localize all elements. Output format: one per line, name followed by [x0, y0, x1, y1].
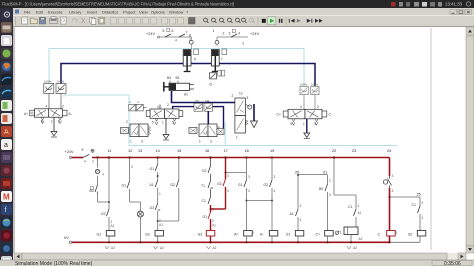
contact T1 (rung 16) [208, 181, 213, 188]
svg-text:B4: B4 [167, 76, 171, 80]
svg-text:3: 3 [227, 174, 229, 178]
svg-text:+24V: +24V [250, 32, 259, 36]
status bar [0, 260, 474, 266]
svg-text:1: 1 [221, 57, 223, 61]
tie rung14-15 [158, 220, 179, 222]
svg-text:0:35:06: 0:35:06 [444, 261, 461, 266]
rung 24 (red) [389, 158, 391, 177]
svg-text:7: 7 [186, 31, 188, 35]
tie rung10-11 [98, 201, 110, 203]
coil G1 [106, 231, 115, 237]
svg-text:2: 2 [329, 179, 331, 183]
svg-text:A2: A2 [353, 246, 357, 250]
contact G3 NC (rung 14) [155, 203, 160, 210]
rung 11 [108, 158, 110, 210]
tie rung22-23 [334, 194, 356, 196]
svg-text:G2: G2 [264, 183, 269, 187]
svg-text:B1: B1 [176, 76, 180, 80]
contact G2 (rung 11) [107, 209, 110, 216]
sensor bulb cyl2 [215, 40, 219, 44]
red jog to rung 17 [211, 208, 226, 210]
contact B0 [95, 185, 98, 193]
contact G1 (rung 12) [127, 181, 130, 188]
svg-text:A1: A1 [150, 183, 154, 187]
svg-text:T1: T1 [338, 231, 342, 235]
svg-text:22: 22 [332, 149, 336, 153]
svg-text:9: 9 [82, 148, 84, 152]
contact G1 (rung 14) [155, 164, 158, 171]
branch 25 [390, 196, 421, 198]
svg-text:1: 1 [130, 140, 132, 144]
contact B0 (rung 21) [325, 184, 328, 191]
contact A1 (rung 14) [155, 180, 158, 187]
svg-text:2: 2 [396, 231, 398, 235]
svg-text:A1: A1 [290, 212, 294, 216]
svg-text:A2: A2 [160, 246, 164, 250]
svg-text:3: 3 [392, 174, 394, 178]
svg-text:3: 3 [141, 140, 143, 144]
svg-text:100%: 100% [311, 83, 319, 87]
svg-text:S1: S1 [286, 233, 290, 237]
contact G1 (rung 18) [244, 180, 247, 187]
svg-text:Library: Library [69, 9, 81, 14]
wire top rail (red, energized) [72, 157, 83, 159]
svg-text:4: 4 [300, 105, 302, 109]
svg-text:2: 2 [223, 32, 225, 36]
svg-text:C+: C+ [277, 113, 281, 117]
supply triangle under valve D [306, 119, 308, 133]
contact G2 (rung 15) [176, 180, 179, 187]
sensor bulb 8 [189, 40, 193, 44]
svg-text:Insert: Insert [87, 9, 98, 14]
svg-text:1: 1 [236, 136, 238, 140]
wire sensor row 2 [217, 36, 248, 38]
page border [430, 28, 432, 250]
rung 15 [178, 158, 180, 181]
svg-text:D -: D - [210, 83, 216, 87]
svg-text:2: 2 [252, 231, 254, 235]
wire cyan valve S drop [224, 122, 226, 146]
svg-text:A1: A1 [111, 224, 115, 228]
coil G3 [206, 231, 215, 237]
svg-text:2: 2 [317, 105, 319, 109]
svg-text:2: 2 [212, 219, 214, 223]
svg-text:3: 3 [242, 42, 244, 46]
svg-text:Window: Window [169, 9, 183, 14]
svg-text:T1: T1 [201, 184, 205, 188]
svg-text:3: 3 [131, 165, 133, 169]
svg-text:4: 4 [238, 32, 240, 36]
wire cyan long bottom [129, 145, 397, 147]
svg-text:A2: A2 [111, 246, 115, 250]
svg-text:3: 3 [274, 175, 276, 179]
rung 16 (upper part not energized) [210, 158, 212, 167]
svg-text:G1: G1 [203, 215, 208, 219]
rung 20 [297, 175, 299, 209]
rung 22 [333, 158, 335, 196]
wire navy throttle output drop [218, 107, 224, 129]
counter symbol [335, 231, 339, 235]
svg-text:G1: G1 [97, 233, 102, 237]
junction [207, 101, 209, 103]
svg-text:3: 3 [172, 121, 174, 125]
svg-text:17: 17 [224, 149, 228, 153]
wire sensor row 1 [160, 37, 192, 40]
svg-text:0%: 0% [205, 99, 210, 103]
svg-text:Options: Options [151, 9, 165, 14]
svg-text:C-: C- [329, 113, 333, 117]
toolbar [13, 15, 474, 27]
wire bottom rail grey continuation to S2 [390, 241, 421, 243]
svg-text:4: 4 [175, 39, 177, 43]
coil C (red) [387, 231, 396, 237]
horizontal scrollbar [14, 253, 466, 260]
rung numbers [108, 149, 421, 197]
switch row2 [231, 34, 237, 37]
contact G1 (red, rung 16 lower) [208, 212, 211, 219]
svg-text:A1: A1 [159, 223, 163, 227]
svg-text:A2: A2 [213, 246, 217, 250]
lamp [137, 211, 143, 217]
svg-text:6: 6 [172, 29, 174, 33]
svg-text:100%: 100% [44, 80, 52, 84]
svg-text:G2: G2 [101, 212, 106, 216]
svg-text:20: 20 [295, 171, 299, 175]
tie rung12-13 [130, 201, 141, 203]
svg-text:A: A [4, 129, 9, 136]
sub-branch header 20/21 [298, 174, 328, 176]
svg-text:G1: G1 [150, 167, 155, 171]
svg-text:+24V: +24V [65, 150, 74, 154]
rung 13 with lamp [139, 202, 141, 211]
rung 21 [327, 175, 329, 184]
tray icons [391, 2, 396, 7]
svg-text:G2: G2 [171, 183, 176, 187]
wire navy main header [61, 64, 315, 87]
svg-text:4: 4 [227, 189, 229, 193]
svg-text:Project: Project [123, 9, 136, 14]
svg-text:11: 11 [108, 149, 112, 153]
coil A- [269, 231, 278, 237]
svg-text:S2: S2 [408, 233, 412, 237]
wire cyan main loop top [49, 49, 304, 87]
svg-text:G3: G3 [217, 182, 222, 186]
svg-text:G3: G3 [150, 206, 155, 210]
coil A= [244, 231, 253, 237]
svg-text:a: a [4, 142, 8, 149]
switch 9 in rail [83, 154, 90, 157]
svg-text:4: 4 [300, 218, 302, 222]
wire navy drop to valve B [207, 103, 209, 125]
svg-text:1: 1 [213, 29, 215, 33]
tie rung17-18 [226, 172, 247, 174]
svg-text:C1: C1 [412, 203, 416, 207]
coil C= [325, 231, 334, 237]
contact G3 (rung 17, red) [223, 179, 226, 186]
svg-text:G2: G2 [202, 169, 207, 173]
sensor box pair right of cylinder B [218, 70, 225, 76]
svg-text:f: f [5, 207, 7, 214]
svg-text:15: 15 [177, 149, 181, 153]
top panel [0, 0, 474, 8]
switch 5/6 [165, 34, 171, 37]
svg-text:2: 2 [167, 103, 169, 107]
menu bar [13, 8, 474, 15]
vertical scrollbar [466, 27, 474, 253]
svg-text:File: File [24, 9, 31, 14]
svg-text:3: 3 [422, 201, 424, 205]
rung 19 [271, 158, 273, 181]
svg-text:A1: A1 [212, 224, 216, 228]
svg-text:C: C [378, 233, 381, 237]
svg-text:0V: 0V [64, 235, 69, 240]
rung 14 [157, 158, 159, 165]
rung 17 (energized red) [225, 158, 227, 180]
rung 10 branch [96, 156, 98, 158]
svg-text:21: 21 [323, 171, 327, 175]
svg-text:12: 12 [239, 92, 243, 96]
svg-text:Simulation Mode (100% Real tim: Simulation Mode (100% Real time) [15, 261, 93, 266]
svg-text:5: 5 [152, 121, 154, 125]
svg-text:12: 12 [128, 149, 132, 153]
svg-text:A1: A1 [184, 92, 188, 96]
rung 23 branch with C1 contact [355, 195, 357, 209]
svg-text:18: 18 [245, 149, 249, 153]
svg-text:1: 1 [303, 122, 305, 126]
svg-text:3: 3 [210, 140, 212, 144]
exhaust marks [41, 117, 44, 123]
svg-text:3: 3 [300, 204, 302, 208]
svg-text:4: 4 [422, 216, 424, 220]
svg-text:4: 4 [84, 160, 86, 164]
rung 12 [129, 158, 131, 182]
wire cyan left branch [64, 95, 129, 97]
svg-text:4: 4 [392, 189, 394, 193]
supply triangle valve S [251, 121, 258, 128]
svg-text:B0: B0 [319, 187, 323, 191]
contact A1 (rung 20) [296, 209, 299, 216]
svg-text:4: 4 [157, 105, 159, 109]
reset marks under G1 [105, 246, 109, 249]
sensor box D- on cylinder B rod [210, 73, 217, 87]
source symbol above rail [91, 149, 94, 152]
svg-text:13:41:33: 13:41:33 [445, 2, 463, 7]
svg-text:G1: G1 [122, 184, 127, 188]
svg-text:3: 3 [229, 32, 231, 36]
svg-text:1: 1 [162, 121, 164, 125]
svg-text:A2: A2 [359, 237, 363, 241]
svg-text:View: View [139, 9, 148, 14]
svg-text:+24V: +24V [146, 32, 155, 36]
coil G2 [155, 231, 164, 237]
svg-text:4: 4 [274, 189, 276, 193]
contact C1 (rung 25) [418, 206, 421, 213]
wire bottom rail (red, energized) [72, 241, 390, 243]
tie rung18-19 [246, 200, 272, 202]
svg-text:G3: G3 [198, 233, 203, 237]
svg-text:M: M [3, 193, 10, 202]
svg-text:2: 2 [62, 105, 64, 109]
mdi window buttons [450, 10, 472, 15]
svg-text:16: 16 [205, 149, 209, 153]
svg-text:2: 2 [232, 94, 234, 98]
reed switch 8 [95, 169, 99, 173]
supply triangle under valve C [165, 118, 167, 134]
svg-text:3: 3 [358, 204, 360, 208]
svg-text:1: 1 [51, 120, 53, 124]
switch 7 [179, 34, 185, 37]
svg-text:3: 3 [248, 175, 250, 179]
svg-text:Didactics: Didactics [102, 9, 118, 14]
coil S2 [417, 231, 426, 237]
svg-text:24: 24 [387, 149, 391, 153]
svg-text:G2: G2 [145, 233, 150, 237]
timer T1 [344, 227, 358, 235]
contact G2 (rung 19) [270, 180, 273, 187]
svg-text:C1: C1 [348, 205, 352, 209]
svg-text:C1: C1 [202, 199, 206, 203]
svg-text:C=: C= [316, 233, 321, 237]
rung 18 [245, 158, 247, 181]
svg-text:5: 5 [163, 29, 165, 33]
svg-text:100%: 100% [300, 83, 308, 87]
svg-text:2: 2 [189, 38, 191, 42]
svg-text:A+: A+ [24, 112, 28, 116]
svg-text:1: 1 [159, 192, 161, 196]
svg-text:4: 4 [248, 189, 250, 193]
pressure switch on rung 24 [383, 180, 387, 184]
svg-text:3: 3 [92, 160, 94, 164]
contact G2 (rung 16) [208, 166, 211, 173]
svg-text:3: 3 [247, 96, 249, 100]
svg-text:A1: A1 [358, 211, 362, 215]
svg-text:13: 13 [138, 149, 142, 153]
svg-text:19: 19 [270, 149, 274, 153]
svg-text:G1: G1 [238, 183, 243, 187]
svg-text:23: 23 [352, 149, 356, 153]
wire navy gripper line [172, 91, 235, 103]
svg-text:4: 4 [102, 173, 104, 177]
wire cyan center drop [128, 95, 130, 146]
svg-text:2: 2 [126, 120, 128, 124]
svg-text:A-: A- [69, 112, 72, 116]
svg-text:100%: 100% [57, 80, 65, 84]
svg-text:Edit: Edit [36, 9, 44, 14]
coil S1 [295, 231, 304, 237]
svg-text:25: 25 [417, 193, 421, 197]
supply triangle under valve A [53, 117, 55, 131]
svg-text:14: 14 [156, 149, 160, 153]
svg-text:4: 4 [329, 193, 331, 197]
svg-text:0%: 0% [195, 99, 200, 103]
svg-text:FluidSIM-P - [C:\Users\jamarod: FluidSIM-P - [C:\Users\jamarod\Escritori… [2, 2, 234, 7]
wire navy valve S supply [253, 104, 255, 121]
contact C1 (rung 16) [208, 197, 211, 204]
svg-text:1: 1 [199, 140, 201, 144]
svg-text:Execute: Execute [48, 9, 63, 14]
svg-text:A=: A= [234, 233, 239, 237]
muffler left of valve S [217, 129, 224, 135]
svg-text:4: 4 [46, 105, 48, 109]
left dock [0, 8, 13, 266]
